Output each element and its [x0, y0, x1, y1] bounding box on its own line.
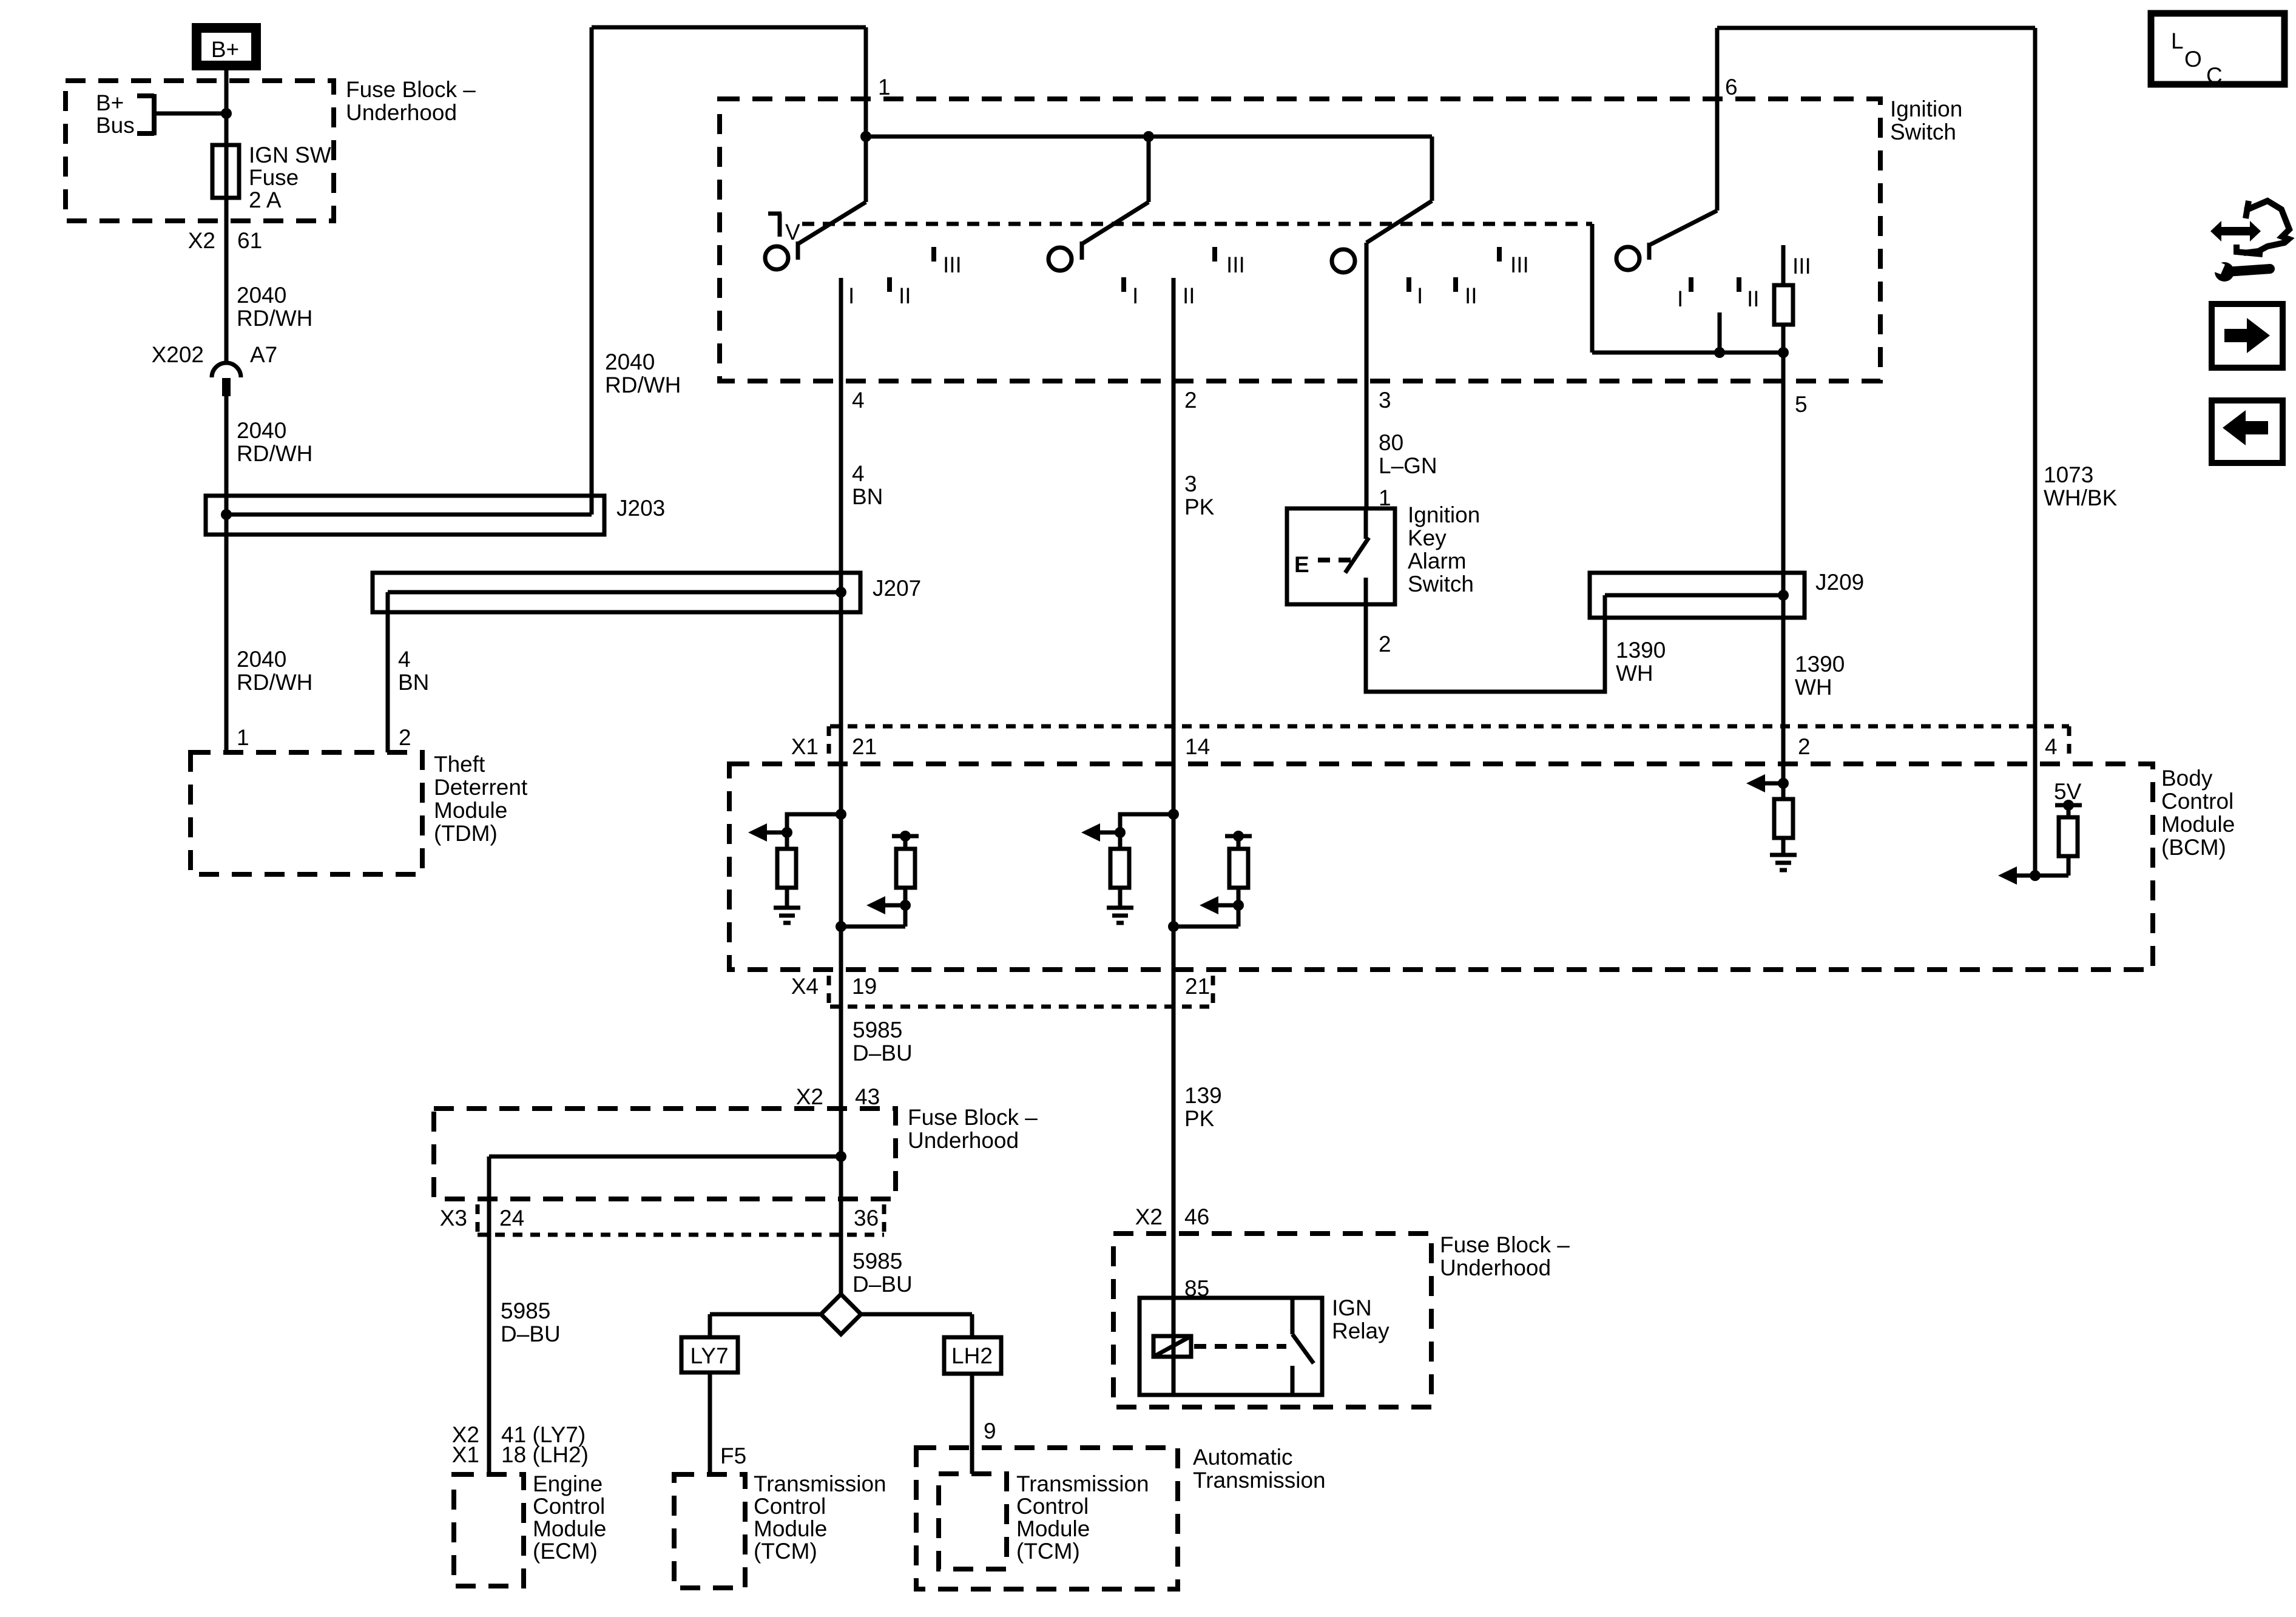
svg-text:9: 9	[984, 1419, 996, 1443]
svg-text:I: I	[1132, 283, 1138, 308]
wire branch to LY7 and LH2	[710, 1312, 972, 1317]
splice J203	[206, 496, 665, 535]
svg-text:139: 139	[1184, 1083, 1222, 1108]
svg-text:Fuse Block –: Fuse Block –	[908, 1105, 1038, 1130]
wire 3 PK wafer2 to BCM pin 14	[1173, 278, 1215, 814]
svg-text:V: V	[785, 220, 800, 245]
svg-text:Switch: Switch	[1890, 120, 1956, 144]
wire 5985 D-BU BCM X4-19 to fuse block X2-43	[796, 1018, 913, 1109]
svg-text:IGN SW: IGN SW	[249, 143, 331, 167]
wire B+ to fuse	[225, 70, 229, 146]
ignition switch wafer 1	[765, 137, 866, 269]
svg-text:L–GN: L–GN	[1379, 453, 1437, 478]
svg-text:Module: Module	[533, 1516, 606, 1541]
svg-text:IGN: IGN	[1332, 1295, 1372, 1320]
svg-text:Theft: Theft	[434, 752, 485, 777]
splice J209	[1590, 570, 1864, 618]
svg-text:3: 3	[1184, 471, 1197, 496]
transmission control module (TCM) 2	[939, 1471, 1149, 1569]
wire internal fuse block tap	[489, 1151, 846, 1162]
wire 4 BN wafer1 to J207	[841, 278, 883, 814]
connector X3 row	[440, 1204, 884, 1235]
wire 5985 D-BU X3-36 to splice diamond	[841, 1156, 913, 1297]
wire 139 PK BCM X4-21 to fuse block X2-46	[1135, 1083, 1222, 1229]
svg-text:2: 2	[1798, 734, 1811, 759]
svg-text:21: 21	[852, 734, 877, 759]
wire 80 L-GN wafer3 to key alarm switch	[1366, 243, 1437, 510]
forward arrow box	[2212, 304, 2283, 368]
svg-text:2040: 2040	[237, 283, 286, 308]
svg-text:2: 2	[1184, 388, 1197, 413]
svg-text:1073: 1073	[2044, 462, 2093, 487]
svg-text:5985: 5985	[501, 1298, 550, 1323]
fuse block underhood (top) module box	[66, 77, 476, 221]
BCM pin 14 input network resistor R3 to ground	[1081, 809, 1179, 923]
svg-text:II: II	[899, 283, 911, 308]
svg-text:PK: PK	[1184, 1106, 1215, 1131]
svg-text:Fuse Block –: Fuse Block –	[346, 77, 476, 102]
wafer 1 position contacts I II III	[848, 247, 962, 308]
svg-text:J207: J207	[873, 576, 921, 601]
svg-text:2: 2	[399, 725, 411, 750]
svg-text:Control: Control	[754, 1494, 826, 1519]
svg-text:RD/WH: RD/WH	[237, 670, 312, 695]
svg-text:E: E	[1294, 552, 1309, 577]
svg-text:2040: 2040	[605, 349, 655, 374]
svg-text:PK: PK	[1184, 495, 1215, 519]
svg-text:Transmission: Transmission	[1016, 1471, 1149, 1496]
svg-text:Key: Key	[1408, 525, 1447, 550]
wire 4 BN J207 to TDM pin 2	[388, 592, 429, 752]
svg-text:Module: Module	[1016, 1516, 1090, 1541]
svg-text:Automatic: Automatic	[1193, 1445, 1293, 1470]
svg-text:Ignition: Ignition	[1890, 96, 1962, 121]
svg-text:Relay: Relay	[1332, 1318, 1389, 1343]
svg-text:Bus: Bus	[96, 113, 135, 138]
BCM pin 21 input network resistor R1 to ground	[748, 809, 846, 923]
repair information icon	[2207, 201, 2289, 282]
svg-text:X1: X1	[791, 734, 819, 759]
position marker V	[768, 214, 800, 245]
svg-text:III: III	[943, 252, 962, 277]
svg-text:Transmission: Transmission	[1193, 1468, 1326, 1493]
svg-text:Engine: Engine	[533, 1471, 603, 1496]
svg-text:F5: F5	[720, 1443, 746, 1468]
body control module (BCM) box	[729, 764, 2235, 970]
svg-text:O: O	[2184, 47, 2202, 72]
svg-text:3: 3	[1379, 388, 1391, 413]
BCM pin 14 pull-up resistor R4	[1168, 831, 1252, 932]
svg-text:II: II	[1747, 286, 1760, 311]
engine control module (ECM)	[454, 1471, 606, 1586]
svg-text:WH: WH	[1616, 661, 1653, 686]
wire 2040 RD/WH X202 to J203	[226, 396, 312, 535]
BCM pin 2 input resistor R5 to ground	[1746, 774, 1797, 870]
svg-text:LY7: LY7	[690, 1343, 728, 1368]
svg-text:Underhood: Underhood	[1440, 1255, 1551, 1280]
svg-text:14: 14	[1185, 734, 1210, 759]
splice J207	[373, 573, 921, 612]
svg-text:I: I	[848, 283, 854, 308]
svg-text:(TDM): (TDM)	[434, 821, 498, 846]
svg-text:X2: X2	[188, 228, 215, 253]
connector X2 pin 61	[188, 228, 262, 253]
svg-text:Control: Control	[1016, 1494, 1089, 1519]
wire 5985 D-BU to ECM	[452, 1156, 589, 1474]
LOC legend box	[2151, 13, 2284, 88]
svg-text:4: 4	[852, 388, 865, 413]
wire 2040 RD/WH J203 to ignition switch pin 1	[592, 27, 891, 515]
battery feed B+ terminal	[192, 23, 261, 70]
wire LY7 to TCM pin F5	[710, 1372, 746, 1474]
wire LH2 to TCM pin 9	[972, 1374, 996, 1474]
svg-text:I: I	[1677, 286, 1683, 311]
svg-text:Body: Body	[2161, 766, 2213, 791]
svg-text:80: 80	[1379, 430, 1403, 455]
svg-text:Alarm: Alarm	[1408, 549, 1467, 573]
svg-text:LH2: LH2	[951, 1343, 993, 1368]
svg-text:Fuse Block –: Fuse Block –	[1440, 1232, 1570, 1257]
wafer 4 common return wire	[1592, 224, 1789, 358]
IGN relay	[1140, 1295, 1389, 1395]
ignition switch wafer 3	[1332, 137, 1432, 272]
wire 2040 RD/WH J203 to TDM pin 1	[226, 535, 312, 752]
svg-text:J203: J203	[616, 496, 665, 521]
svg-text:I: I	[1417, 283, 1423, 308]
BCM pin 4 5V pull-up resistor R6	[1998, 779, 2082, 885]
svg-text:III: III	[1226, 252, 1245, 277]
svg-text:24: 24	[499, 1206, 524, 1230]
svg-text:36: 36	[854, 1206, 879, 1230]
svg-text:21: 21	[1185, 974, 1210, 999]
svg-text:X1: X1	[452, 1442, 479, 1467]
svg-text:X4: X4	[791, 974, 819, 999]
mechanical link dotted line	[802, 222, 1592, 226]
svg-text:D–BU: D–BU	[853, 1041, 913, 1065]
fuse block underhood (right) module box	[1113, 1232, 1570, 1407]
svg-text:X2: X2	[1135, 1204, 1163, 1229]
svg-text:2040: 2040	[237, 647, 286, 672]
ignition switch module box	[720, 96, 1962, 381]
BCM pin 21 pull-up resistor R2	[836, 831, 919, 932]
svg-text:4: 4	[852, 461, 865, 486]
svg-text:X3: X3	[440, 1206, 467, 1230]
backward arrow box	[2212, 400, 2283, 463]
svg-text:C: C	[2206, 63, 2223, 88]
svg-text:D–BU: D–BU	[501, 1322, 561, 1346]
svg-text:(ECM): (ECM)	[533, 1539, 598, 1564]
svg-text:Deterrent: Deterrent	[434, 775, 528, 800]
svg-text:B+: B+	[211, 37, 239, 62]
connector X1 row of BCM	[791, 726, 2069, 760]
wire 139 PK into relay coil pin 85	[1173, 1234, 1209, 1395]
svg-text:Transmission: Transmission	[754, 1471, 886, 1496]
svg-text:X202: X202	[152, 342, 204, 367]
fuse block underhood (middle) module box	[434, 1105, 1038, 1199]
svg-text:Fuse: Fuse	[249, 165, 299, 190]
splice diamond	[821, 1294, 861, 1334]
svg-text:RD/WH: RD/WH	[605, 373, 681, 397]
svg-text:D–BU: D–BU	[853, 1272, 913, 1297]
svg-text:4: 4	[398, 647, 411, 672]
svg-text:L: L	[2171, 29, 2184, 53]
automatic transmission assembly box	[916, 1445, 1326, 1589]
svg-text:Underhood: Underhood	[908, 1128, 1019, 1153]
svg-text:BN: BN	[852, 484, 883, 509]
transmission control module (TCM) 1	[674, 1471, 886, 1588]
svg-text:II: II	[1183, 283, 1195, 308]
svg-text:X2: X2	[796, 1084, 823, 1109]
wire BCM pin14 internal to X4 pin 21	[1172, 814, 1176, 1234]
svg-text:1390: 1390	[1616, 638, 1666, 663]
wafer 2 position contacts I II III	[1124, 247, 1245, 308]
wafer 4 resistor	[1774, 245, 1793, 353]
inline connector X202 terminal A7	[152, 342, 278, 396]
svg-text:B+: B+	[96, 90, 124, 115]
svg-text:(BCM): (BCM)	[2161, 835, 2226, 860]
svg-text:BN: BN	[398, 670, 429, 695]
ignition key alarm switch	[1287, 502, 1480, 604]
svg-text:(TCM): (TCM)	[754, 1539, 817, 1564]
wafer 3 position contacts I II III	[1409, 247, 1529, 308]
svg-text:1: 1	[237, 725, 249, 750]
connector X4 row of BCM	[791, 974, 1213, 1007]
svg-text:61: 61	[237, 228, 262, 253]
svg-text:1390: 1390	[1795, 652, 1845, 677]
svg-text:Control: Control	[2161, 789, 2234, 814]
svg-text:4: 4	[2045, 734, 2058, 759]
wire 1390 WH alarm switch to J209	[1366, 595, 1666, 692]
svg-text:II: II	[1465, 283, 1477, 308]
svg-text:(TCM): (TCM)	[1016, 1539, 1080, 1564]
wire 5 1390 WH wafer4 to J209 and BCM pin 2	[1783, 353, 1845, 783]
svg-text:Module: Module	[2161, 812, 2235, 837]
svg-text:2: 2	[1379, 632, 1391, 657]
svg-text:WH: WH	[1795, 675, 1832, 700]
wire 6 / 1073 WH/BK to BCM pin 4	[1717, 28, 2118, 876]
wire internal bus from pin 1	[860, 131, 1432, 142]
svg-text:46: 46	[1184, 1204, 1209, 1229]
svg-text:Control: Control	[533, 1494, 605, 1519]
wire 2040 RD/WH fuse block to X202	[226, 221, 312, 362]
svg-text:RD/WH: RD/WH	[237, 306, 312, 331]
svg-text:5: 5	[1795, 392, 1808, 417]
svg-text:6: 6	[1725, 75, 1738, 100]
svg-text:Module: Module	[754, 1516, 827, 1541]
ignition switch wafer 4	[1616, 28, 1738, 270]
svg-text:Underhood: Underhood	[346, 100, 457, 125]
svg-text:Switch: Switch	[1408, 572, 1474, 596]
svg-text:5985: 5985	[853, 1249, 902, 1274]
svg-text:1: 1	[878, 75, 891, 100]
theft deterrent module (TDM)	[191, 752, 528, 874]
svg-text:A7: A7	[250, 342, 277, 367]
svg-text:2040: 2040	[237, 418, 286, 443]
svg-text:5985: 5985	[853, 1018, 902, 1042]
svg-text:43: 43	[855, 1084, 880, 1109]
ignition switch wafer 2	[1048, 137, 1149, 271]
wafer 4 position contacts I II III	[1677, 254, 1811, 311]
engine option LH2 tag	[944, 1314, 1001, 1374]
svg-text:18 (LH2): 18 (LH2)	[501, 1442, 589, 1467]
svg-text:RD/WH: RD/WH	[237, 441, 312, 466]
node B+ bus tap	[96, 90, 232, 138]
svg-text:Ignition: Ignition	[1408, 502, 1480, 527]
svg-text:Module: Module	[434, 798, 507, 823]
svg-text:J209: J209	[1815, 570, 1864, 595]
svg-text:III: III	[1792, 254, 1811, 279]
wire BCM pin21 internal to X4 pin 19	[839, 814, 843, 1156]
svg-text:19: 19	[852, 974, 877, 999]
fuse IGN SW Fuse 2A	[212, 143, 331, 221]
svg-text:WH/BK: WH/BK	[2044, 485, 2118, 510]
svg-text:2 A: 2 A	[249, 187, 282, 212]
svg-text:5V: 5V	[2054, 779, 2082, 804]
svg-text:III: III	[1510, 252, 1529, 277]
engine option LY7 tag	[681, 1314, 738, 1372]
